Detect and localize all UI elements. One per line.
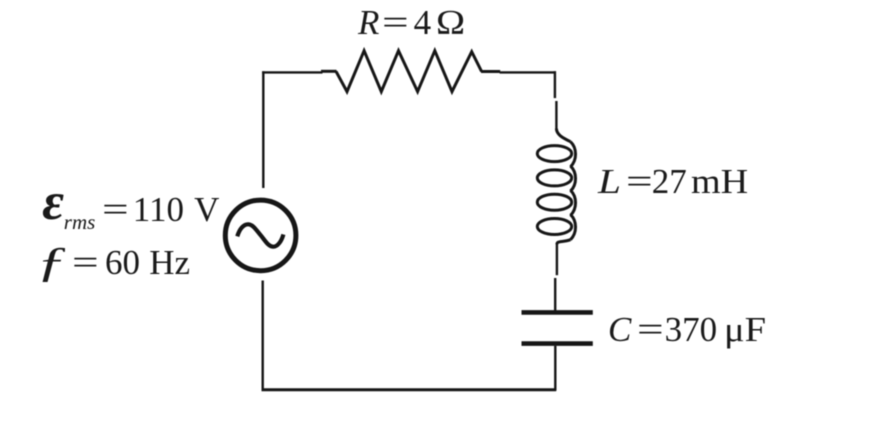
inductor L right arc 4 <box>571 215 576 240</box>
wire right vertical below inductor <box>556 243 558 275</box>
label resistor value R = 4 ohm <box>0 0 890 1</box>
resistor R lead left <box>321 70 337 73</box>
label inductor value L = 27 mH <box>0 0 890 1</box>
wire right vertical segment to inductor <box>555 101 557 129</box>
resistor R lead right <box>481 70 500 73</box>
wire left vertical upper segment <box>262 71 264 188</box>
wire right vertical segment above break <box>554 71 556 98</box>
inductor L right arc 2 <box>571 166 576 191</box>
wire left vertical lower segment <box>262 281 264 392</box>
inductor L loop 2 <box>537 170 571 186</box>
inductor L exit curve <box>557 240 571 245</box>
inductor L right arc 3 <box>571 190 576 215</box>
capacitor C top plate <box>522 310 593 315</box>
wire right vertical to capacitor <box>554 278 556 310</box>
resistor R = 4 ohm zigzag <box>336 51 482 92</box>
AC source circle <box>225 200 296 271</box>
wire bottom segment <box>262 388 557 391</box>
capacitor C bottom plate <box>522 341 593 346</box>
AC source sine wave <box>237 224 283 246</box>
wire top right segment <box>500 71 556 73</box>
inductor L loop 4 <box>537 219 571 235</box>
inductor L loop 3 <box>537 194 571 210</box>
inductor L right arc 1 <box>571 142 576 167</box>
inductor L entry curve <box>556 129 570 142</box>
inductor L loop 1 <box>537 146 571 162</box>
label capacitor value C = 370 uF <box>0 0 890 1</box>
wire below capacitor <box>554 346 556 391</box>
label source EMF rms = 110 V <box>0 0 890 1</box>
label source frequency f = 60 Hz <box>0 0 890 1</box>
wire top left segment <box>262 71 322 73</box>
